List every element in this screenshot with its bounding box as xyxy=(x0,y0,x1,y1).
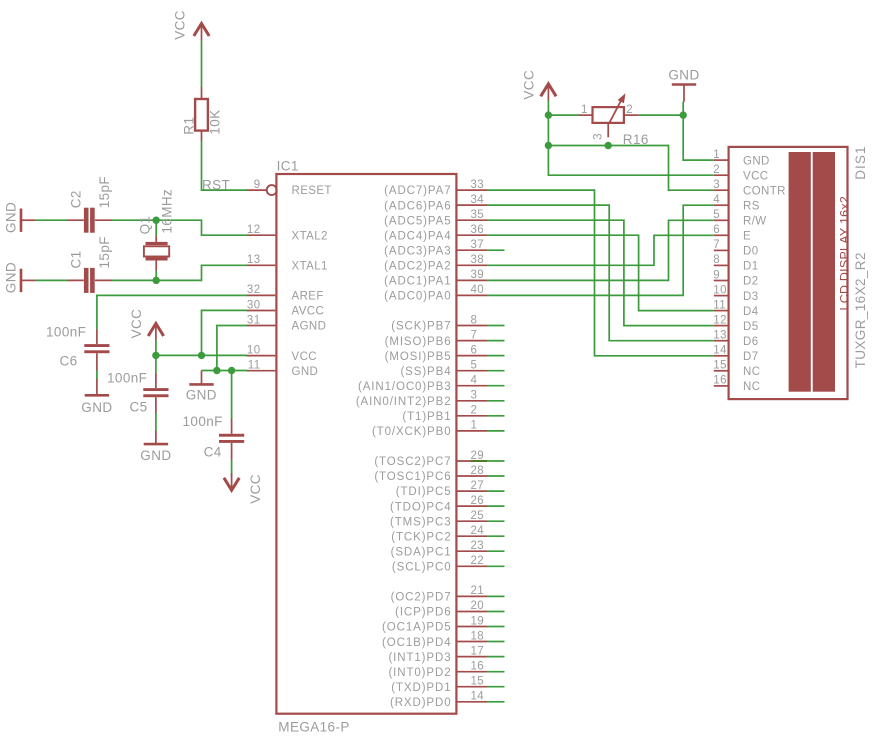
junction GND-R16.2 node xyxy=(680,111,687,118)
IC1 pin 4 (AIN1/OC0)PB3 stub xyxy=(458,385,488,387)
wire stub at pin 22 xyxy=(487,565,505,567)
potentiometer R16 wiper arrow xyxy=(609,93,626,124)
IC1 pin 1 (T0/XCK)PB0 stub xyxy=(458,430,488,432)
IC1 pin 7 (MISO)PB6 stub xyxy=(458,340,488,342)
wire C1 to crystal bottom node xyxy=(112,265,247,280)
svg-text:33: 33 xyxy=(471,179,485,191)
svg-text:(ADC3)PA3: (ADC3)PA3 xyxy=(384,245,451,257)
svg-text:TUXGR_16X2_R2: TUXGR_16X2_R2 xyxy=(853,252,868,368)
junction wiper node xyxy=(605,142,612,149)
svg-text:19: 19 xyxy=(471,615,485,627)
svg-text:D7: D7 xyxy=(743,351,759,363)
DIS1 pin 4 RS stub xyxy=(714,204,728,206)
svg-text:GND: GND xyxy=(140,448,171,463)
svg-text:13: 13 xyxy=(713,330,727,342)
IC1 pin 39 (ADC1)PA1 stub xyxy=(458,279,488,281)
IC1 pin 16 (INT0)PD2 stub xyxy=(458,671,488,673)
svg-text:D1: D1 xyxy=(743,261,759,273)
svg-text:RESET: RESET xyxy=(292,185,332,197)
IC1 pin 38 (ADC2)PA2 stub xyxy=(458,264,488,266)
crystal Q1 xyxy=(144,235,169,271)
svg-text:(ADC2)PA2: (ADC2)PA2 xyxy=(384,261,451,273)
svg-text:(ADC0)PA0: (ADC0)PA0 xyxy=(384,291,451,303)
wire PA4 to LCD D4 xyxy=(487,235,714,310)
junction VCC-wiper node xyxy=(545,142,552,149)
IC1 pin 2 (T1)PB1 stub xyxy=(458,415,488,417)
wire PA1 to LCD R/W xyxy=(487,220,714,280)
svg-text:(SCL)PC0: (SCL)PC0 xyxy=(392,562,452,574)
svg-text:AREF: AREF xyxy=(292,291,324,303)
IC1 pin 36 (ADC4)PA4 stub xyxy=(458,234,488,236)
power symbol VCC below C4 xyxy=(224,473,239,490)
svg-text:(TMS)PC3: (TMS)PC3 xyxy=(390,516,452,528)
IC1 pin 3 (AIN0/INT2)PB2 stub xyxy=(458,400,488,402)
IC1 pin 19 (OC1A)PD5 stub xyxy=(458,626,488,628)
ground symbol below C5 xyxy=(144,431,168,444)
wire stub at pin 6 xyxy=(487,355,505,357)
DIS1 pin 15 NC stub xyxy=(714,370,728,372)
svg-text:14: 14 xyxy=(713,345,727,357)
svg-text:GND: GND xyxy=(186,387,217,402)
DIS1 pin 6 E stub xyxy=(714,234,728,236)
svg-text:(TOSC2)PC7: (TOSC2)PC7 xyxy=(374,456,451,468)
svg-text:LCD DISPLAY 16x2: LCD DISPLAY 16x2 xyxy=(838,196,852,311)
svg-text:1: 1 xyxy=(581,104,588,116)
junction AGND node xyxy=(213,367,220,374)
IC1 pin 13 XTAL1 stub xyxy=(246,264,275,266)
svg-text:D3: D3 xyxy=(743,291,759,303)
svg-text:R1: R1 xyxy=(182,117,197,135)
wire GND to C2 xyxy=(35,219,67,221)
svg-text:15: 15 xyxy=(713,360,727,372)
potentiometer R16 body xyxy=(593,107,624,123)
svg-text:(ADC1)PA1: (ADC1)PA1 xyxy=(384,276,451,288)
svg-text:(OC2)PD7: (OC2)PD7 xyxy=(391,592,452,604)
svg-text:30: 30 xyxy=(247,299,261,311)
wire stub at pin 4 xyxy=(487,385,505,387)
wire RST net R1 to IC1 pin 9 xyxy=(202,141,247,190)
svg-text:VCC: VCC xyxy=(292,351,317,363)
wire stub at pin 29 xyxy=(487,460,505,462)
svg-text:D6: D6 xyxy=(743,336,759,348)
IC1 pin 40 (ADC0)PA0 stub xyxy=(458,294,488,296)
DIS1 pin 5 R/W stub xyxy=(714,219,728,221)
svg-text:C4: C4 xyxy=(204,445,222,460)
wire crystal top pin xyxy=(155,220,157,235)
svg-text:AGND: AGND xyxy=(292,321,327,333)
svg-text:(SCK)PB7: (SCK)PB7 xyxy=(391,321,451,333)
svg-text:8: 8 xyxy=(713,254,720,266)
wire stub at pin 28 xyxy=(487,475,505,477)
svg-text:VCC: VCC xyxy=(743,170,768,182)
IC1 pin 21 (OC2)PD7 stub xyxy=(458,595,488,597)
svg-text:(ICP)PD6: (ICP)PD6 xyxy=(395,607,451,619)
svg-text:100nF: 100nF xyxy=(183,414,223,429)
wire stub at pin 7 xyxy=(487,340,505,342)
svg-text:16: 16 xyxy=(713,375,727,387)
svg-text:(ADC6)PA6: (ADC6)PA6 xyxy=(384,200,451,212)
svg-text:(INT1)PD3: (INT1)PD3 xyxy=(388,652,451,664)
svg-text:(T0/XCK)PB0: (T0/XCK)PB0 xyxy=(372,426,452,438)
svg-text:RS: RS xyxy=(743,200,760,212)
svg-text:38: 38 xyxy=(471,254,485,266)
IC1 pin 25 (TMS)PC3 stub xyxy=(458,520,488,522)
wire PA7 to LCD D7 xyxy=(487,190,714,356)
svg-text:14: 14 xyxy=(471,691,485,703)
DIS1 pin 7 D0 stub xyxy=(714,249,728,251)
LCD connector box DIS1 xyxy=(729,147,848,399)
svg-text:9: 9 xyxy=(713,269,720,281)
svg-text:6: 6 xyxy=(471,344,478,356)
ground symbol left of C2 xyxy=(21,209,35,232)
junction AVCC node xyxy=(198,352,205,359)
svg-text:D0: D0 xyxy=(743,246,759,258)
svg-text:(ADC5)PA5: (ADC5)PA5 xyxy=(384,215,451,227)
wire wiper row xyxy=(548,146,713,191)
IC1 pin 27 (TDI)PC5 stub xyxy=(458,490,488,492)
wire C4 to VCC arrow xyxy=(231,460,233,477)
svg-text:RST: RST xyxy=(202,177,230,192)
DIS1 pin 12 D5 stub xyxy=(714,325,728,327)
IC1 pin 33 (ADC7)PA7 stub xyxy=(458,189,488,191)
IC1 pin 14 (RXD)PD0 stub xyxy=(458,701,488,703)
wire VCC col down to LCD pin 2 xyxy=(548,100,713,175)
ground symbol above LCD xyxy=(672,83,696,86)
svg-text:GND: GND xyxy=(292,366,319,378)
IC1 pin 32 AREF stub xyxy=(246,294,275,296)
potentiometer R16 pins xyxy=(578,115,639,137)
svg-text:10K: 10K xyxy=(208,109,223,134)
svg-text:1: 1 xyxy=(471,420,478,432)
svg-text:D5: D5 xyxy=(743,321,759,333)
wire stub at pin 5 xyxy=(487,370,505,372)
svg-text:XTAL2: XTAL2 xyxy=(292,230,328,242)
svg-text:18: 18 xyxy=(471,630,485,642)
svg-text:VCC: VCC xyxy=(248,474,263,504)
svg-text:27: 27 xyxy=(471,480,485,492)
ground symbol stub above LCD xyxy=(683,85,685,102)
svg-text:(INT0)PD2: (INT0)PD2 xyxy=(388,667,451,679)
resistor R1 body xyxy=(195,99,208,131)
wire stub at pin 37 xyxy=(487,249,505,251)
IC1 pin 34 (ADC6)PA6 stub xyxy=(458,204,488,206)
svg-text:2: 2 xyxy=(713,164,720,176)
svg-text:37: 37 xyxy=(471,239,485,251)
capacitor C5 xyxy=(143,388,168,397)
IC1 pin 9 RESET stub with inversion circle xyxy=(246,185,276,195)
svg-text:VCC: VCC xyxy=(129,309,144,339)
IC1 pin 31 AGND stub xyxy=(246,325,275,327)
wire R16 pin2 to GND node xyxy=(639,114,683,116)
DIS1 pin 10 D3 stub xyxy=(714,295,728,297)
wire crystal bottom pin xyxy=(155,271,157,281)
IC1 pin 28 (TOSC1)PC6 stub xyxy=(458,475,488,477)
wire stub at pin 18 xyxy=(487,641,505,643)
svg-text:(TCK)PC2: (TCK)PC2 xyxy=(391,531,451,543)
svg-text:13: 13 xyxy=(247,254,261,266)
DIS1 pin 1 GND stub xyxy=(714,159,728,161)
svg-text:1: 1 xyxy=(713,149,720,161)
svg-text:(SDA)PC1: (SDA)PC1 xyxy=(391,547,452,559)
wire GND to C1 xyxy=(35,279,67,281)
svg-text:21: 21 xyxy=(471,585,485,597)
svg-text:3: 3 xyxy=(471,390,478,402)
IC1 pin 6 (MOSI)PB5 stub xyxy=(458,355,488,357)
DIS1 pin 11 D4 stub xyxy=(714,310,728,312)
svg-text:C2: C2 xyxy=(69,190,84,208)
IC1 pin 11 GND stub xyxy=(246,370,275,372)
svg-text:39: 39 xyxy=(471,269,485,281)
svg-text:NC: NC xyxy=(743,366,760,378)
svg-text:8: 8 xyxy=(471,314,478,326)
IC1 pin 10 VCC stub xyxy=(246,355,275,357)
capacitor C2 xyxy=(84,208,95,233)
svg-text:9: 9 xyxy=(254,179,261,191)
svg-text:D4: D4 xyxy=(743,306,759,318)
wire PA6 to LCD D6 xyxy=(487,205,714,341)
ground symbol left of C1 xyxy=(21,269,35,292)
svg-text:24: 24 xyxy=(471,525,485,537)
wire stub at pin 19 xyxy=(487,626,505,628)
wire stub at pin 20 xyxy=(487,611,505,613)
IC1 pin 15 (TXD)PD1 stub xyxy=(458,686,488,688)
svg-text:4: 4 xyxy=(713,194,720,206)
wire stub at pin 23 xyxy=(487,550,505,552)
IC1 pin 22 (SCL)PC0 stub xyxy=(458,565,488,567)
wire AVCC net xyxy=(202,310,247,355)
LCD display glass bar right xyxy=(813,152,835,392)
LCD display glass bar left xyxy=(789,152,811,392)
wire C5 to GND xyxy=(155,413,157,432)
svg-text:GND: GND xyxy=(4,202,19,233)
svg-text:(MOSI)PB5: (MOSI)PB5 xyxy=(385,351,452,363)
wire AGND net xyxy=(217,326,247,371)
svg-text:16: 16 xyxy=(471,661,485,673)
DIS1 pin 3 CONTR stub xyxy=(714,189,728,191)
power symbol VCC above R1 xyxy=(194,24,209,41)
svg-text:VCC: VCC xyxy=(521,70,536,100)
svg-text:GND: GND xyxy=(743,155,770,167)
svg-text:DIS1: DIS1 xyxy=(853,145,868,179)
DIS1 pin 2 VCC stub xyxy=(714,174,728,176)
wire stub at pin 1 xyxy=(487,430,505,432)
svg-text:(OC1A)PD5: (OC1A)PD5 xyxy=(382,622,451,634)
svg-text:(TXD)PD1: (TXD)PD1 xyxy=(391,682,451,694)
svg-text:GND: GND xyxy=(668,67,699,82)
svg-text:Q1: Q1 xyxy=(138,216,153,235)
IC1 pin 29 (TOSC2)PC7 stub xyxy=(458,460,488,462)
svg-text:40: 40 xyxy=(471,284,485,296)
wire C2 to crystal node xyxy=(112,220,247,235)
wire stub at pin 17 xyxy=(487,656,505,658)
wire stub at pin 2 xyxy=(487,415,505,417)
wire stub at pin 27 xyxy=(487,490,505,492)
wire stub at pin 24 xyxy=(487,535,505,537)
svg-text:2: 2 xyxy=(471,405,478,417)
wire PA0 to LCD RS xyxy=(487,205,714,295)
IC IC1 MEGA16-P box outline xyxy=(276,174,456,714)
svg-text:VCC: VCC xyxy=(172,10,187,40)
svg-text:(OC1B)PD4: (OC1B)PD4 xyxy=(382,637,451,649)
DIS1 pin 16 NC stub xyxy=(714,385,728,387)
wire PA5 to LCD D5 xyxy=(487,220,714,325)
svg-text:25: 25 xyxy=(471,510,485,522)
svg-text:GND: GND xyxy=(4,262,19,293)
capacitor C4 xyxy=(219,434,244,443)
svg-text:IC1: IC1 xyxy=(277,159,299,174)
IC1 pin 8 (SCK)PB7 stub xyxy=(458,325,488,327)
svg-text:17: 17 xyxy=(471,645,485,657)
junction crystal top node xyxy=(153,217,160,224)
IC1 pin 17 (INT1)PD3 stub xyxy=(458,656,488,658)
svg-text:GND: GND xyxy=(81,400,112,415)
wire stub at pin 3 xyxy=(487,400,505,402)
svg-text:3: 3 xyxy=(592,133,604,140)
svg-text:(TDO)PC4: (TDO)PC4 xyxy=(390,501,452,513)
capacitor C6 xyxy=(84,344,109,353)
svg-text:C6: C6 xyxy=(60,354,78,369)
IC1 pin 24 (TCK)PC2 stub xyxy=(458,535,488,537)
svg-text:12: 12 xyxy=(713,314,727,326)
IC1 pin 20 (ICP)PD6 stub xyxy=(458,611,488,613)
wire PA2 to LCD E xyxy=(487,235,714,265)
DIS1 pin 14 D7 stub xyxy=(714,355,728,357)
wire stub at pin 16 xyxy=(487,671,505,673)
wire stub at pin 14 xyxy=(487,701,505,703)
svg-text:7: 7 xyxy=(471,329,478,341)
svg-text:MEGA16-P: MEGA16-P xyxy=(278,719,349,734)
wire R16 pin1 xyxy=(548,114,578,116)
wire stub at pin 15 xyxy=(487,686,505,688)
svg-text:(ADC7)PA7: (ADC7)PA7 xyxy=(384,185,451,197)
wire stub at pin 21 xyxy=(487,595,505,597)
svg-text:2: 2 xyxy=(626,104,633,116)
wire VCC to R1 xyxy=(201,41,203,88)
svg-text:CONTR: CONTR xyxy=(743,185,786,197)
IC1 pin 26 (TDO)PC4 stub xyxy=(458,505,488,507)
svg-text:23: 23 xyxy=(471,540,485,552)
ground symbol at IC1 pin 11 row xyxy=(189,371,213,385)
wire AREF net xyxy=(97,295,247,329)
svg-text:15: 15 xyxy=(471,676,485,688)
svg-text:(SS)PB4: (SS)PB4 xyxy=(400,366,451,378)
DIS1 pin 8 D1 stub xyxy=(714,264,728,266)
svg-text:5: 5 xyxy=(713,209,720,221)
wire C6 to GND xyxy=(96,370,98,379)
svg-text:(TOSC1)PC6: (TOSC1)PC6 xyxy=(374,471,451,483)
svg-text:6: 6 xyxy=(713,224,720,236)
IC1 pin 5 (SS)PB4 stub xyxy=(458,370,488,372)
svg-text:11: 11 xyxy=(713,299,726,311)
svg-text:10: 10 xyxy=(247,344,261,356)
svg-text:11: 11 xyxy=(248,360,261,372)
wire GND col to LCD pin 1 xyxy=(683,102,714,161)
svg-text:20: 20 xyxy=(471,600,485,612)
wire C4 top xyxy=(231,371,233,420)
svg-text:15pF: 15pF xyxy=(97,236,112,268)
power symbol VCC mid-left xyxy=(148,324,163,341)
svg-text:31: 31 xyxy=(247,314,261,326)
wire VCC row to IC1 pin 10 xyxy=(156,354,247,356)
junction VCC-C5 node xyxy=(152,352,159,359)
svg-text:C1: C1 xyxy=(69,250,84,268)
IC1 pin 35 (ADC5)PA5 stub xyxy=(458,219,488,221)
svg-text:XTAL1: XTAL1 xyxy=(292,261,328,273)
svg-text:36: 36 xyxy=(471,224,485,236)
wire stub at pin 26 xyxy=(487,505,505,507)
svg-text:22: 22 xyxy=(471,555,485,567)
svg-text:D2: D2 xyxy=(743,276,759,288)
svg-text:26: 26 xyxy=(471,495,485,507)
svg-text:12: 12 xyxy=(247,224,261,236)
junction VCC-R16.1 node xyxy=(545,111,552,118)
svg-text:100nF: 100nF xyxy=(46,325,86,340)
svg-text:3: 3 xyxy=(713,179,720,191)
DIS1 pin 9 D2 stub xyxy=(714,280,728,282)
svg-text:29: 29 xyxy=(471,450,485,462)
svg-text:R/W: R/W xyxy=(743,216,767,228)
svg-text:E: E xyxy=(743,231,751,243)
svg-text:(RXD)PD0: (RXD)PD0 xyxy=(390,697,452,709)
wire stub at pin 29 (overlap segment) xyxy=(471,460,488,462)
IC1 pin 23 (SDA)PC1 stub xyxy=(458,550,488,552)
svg-text:35: 35 xyxy=(471,209,485,221)
DIS1 pin 13 D6 stub xyxy=(714,340,728,342)
svg-text:(TDI)PC5: (TDI)PC5 xyxy=(396,486,452,498)
svg-text:(MISO)PB6: (MISO)PB6 xyxy=(385,336,452,348)
junction C4 node xyxy=(228,367,235,374)
IC1 pin 30 AVCC stub xyxy=(246,310,275,312)
capacitor C1 xyxy=(84,268,95,293)
svg-text:4: 4 xyxy=(471,375,478,387)
wire GND row to IC1 pin 11 xyxy=(202,370,247,372)
svg-text:34: 34 xyxy=(471,194,485,206)
svg-text:(AIN1/OC0)PB3: (AIN1/OC0)PB3 xyxy=(358,381,452,393)
svg-text:(T1)PB1: (T1)PB1 xyxy=(402,411,451,423)
svg-text:AVCC: AVCC xyxy=(292,306,325,318)
svg-text:100nF: 100nF xyxy=(107,371,147,386)
IC1 pin 18 (OC1B)PD4 stub xyxy=(458,641,488,643)
wire stub at pin 25 xyxy=(487,520,505,522)
svg-text:5: 5 xyxy=(471,360,478,372)
wire stub at pin 8 xyxy=(487,325,505,327)
svg-text:28: 28 xyxy=(471,465,485,477)
IC1 pin 12 XTAL2 stub xyxy=(246,234,275,236)
wire VCC symbol down xyxy=(155,340,157,355)
svg-text:(AIN0/INT2)PB2: (AIN0/INT2)PB2 xyxy=(356,396,452,408)
svg-text:10: 10 xyxy=(713,284,727,296)
svg-text:(ADC4)PA4: (ADC4)PA4 xyxy=(384,230,451,242)
svg-text:16MHz: 16MHz xyxy=(160,189,175,234)
power symbol VCC at R16 xyxy=(541,84,556,101)
IC1 pin 37 (ADC3)PA3 stub xyxy=(458,249,488,251)
svg-text:NC: NC xyxy=(743,381,760,393)
svg-text:15pF: 15pF xyxy=(97,176,112,208)
ground symbol below C6 xyxy=(85,379,109,395)
svg-text:7: 7 xyxy=(713,239,720,251)
svg-text:32: 32 xyxy=(247,284,261,296)
junction crystal bottom node xyxy=(153,277,160,284)
resistor R1 pins xyxy=(201,87,203,142)
wire C5 top xyxy=(155,355,157,373)
svg-text:C5: C5 xyxy=(130,400,148,415)
